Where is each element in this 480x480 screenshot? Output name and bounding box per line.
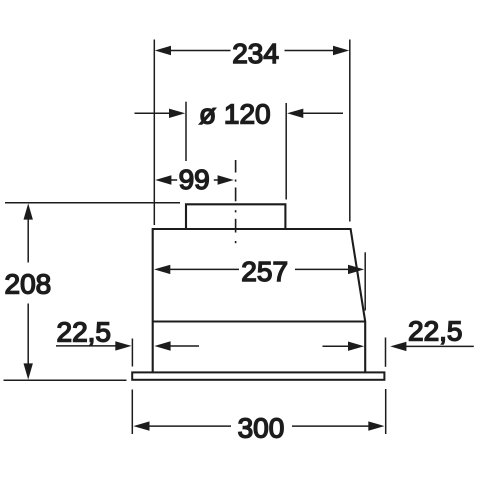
dim 300 right arrow bbox=[292, 421, 385, 430]
hood duct collar outline bbox=[186, 204, 285, 229]
dim 22,5 left extension line bbox=[131, 339, 133, 367]
flange rectangle bbox=[132, 372, 384, 379]
dim 300 right extension line bbox=[385, 389, 387, 434]
centerline bbox=[235, 160, 237, 243]
dim 208 top arrow bbox=[24, 203, 33, 262]
dim 208 bottom extension line bbox=[4, 379, 127, 381]
dim 120 right arrow bbox=[287, 109, 343, 118]
dim 257 left arrow bbox=[154, 265, 239, 274]
dim 234 left arrow bbox=[155, 46, 231, 55]
dim 300 left arrow bbox=[133, 421, 231, 430]
dim 234 left extension line bbox=[153, 40, 155, 226]
dim 22,5 right inner arrow bbox=[323, 342, 365, 351]
dim 22,5 left inner arrow bbox=[154, 341, 199, 350]
dim 234 right arrow bbox=[285, 46, 350, 55]
dim 257 right arrow bbox=[295, 265, 364, 274]
svg-text:22,5: 22,5 bbox=[57, 316, 112, 347]
dim 120 left arrow bbox=[135, 109, 186, 118]
dim 22,5 right extension line upper bbox=[385, 338, 387, 367]
dim 234 right extension line bbox=[349, 40, 351, 222]
svg-text:208: 208 bbox=[5, 268, 52, 299]
dim 208 bottom arrow bbox=[24, 304, 33, 380]
svg-text:22,5: 22,5 bbox=[408, 316, 463, 347]
dim 99 left arrow bbox=[155, 175, 177, 184]
hood body outline bbox=[153, 229, 366, 372]
svg-text:99: 99 bbox=[179, 164, 210, 195]
dim 300 left extension line bbox=[131, 390, 133, 435]
dim 208 top extension line bbox=[5, 202, 180, 204]
dim 99 right arrow bbox=[214, 175, 234, 184]
body divider line bbox=[153, 320, 366, 322]
dim 120 left extension line bbox=[185, 102, 187, 161]
svg-text:234: 234 bbox=[232, 38, 279, 69]
svg-text:257: 257 bbox=[241, 256, 288, 287]
dim 257 right extension line bbox=[364, 252, 366, 310]
svg-text:ø 120: ø 120 bbox=[199, 98, 271, 129]
dim 120 right extension line bbox=[285, 103, 287, 200]
dim 22,5 left outer arrow bbox=[56, 341, 132, 350]
svg-text:300: 300 bbox=[238, 412, 285, 443]
dim 22,5 right outer arrow bbox=[390, 342, 474, 351]
